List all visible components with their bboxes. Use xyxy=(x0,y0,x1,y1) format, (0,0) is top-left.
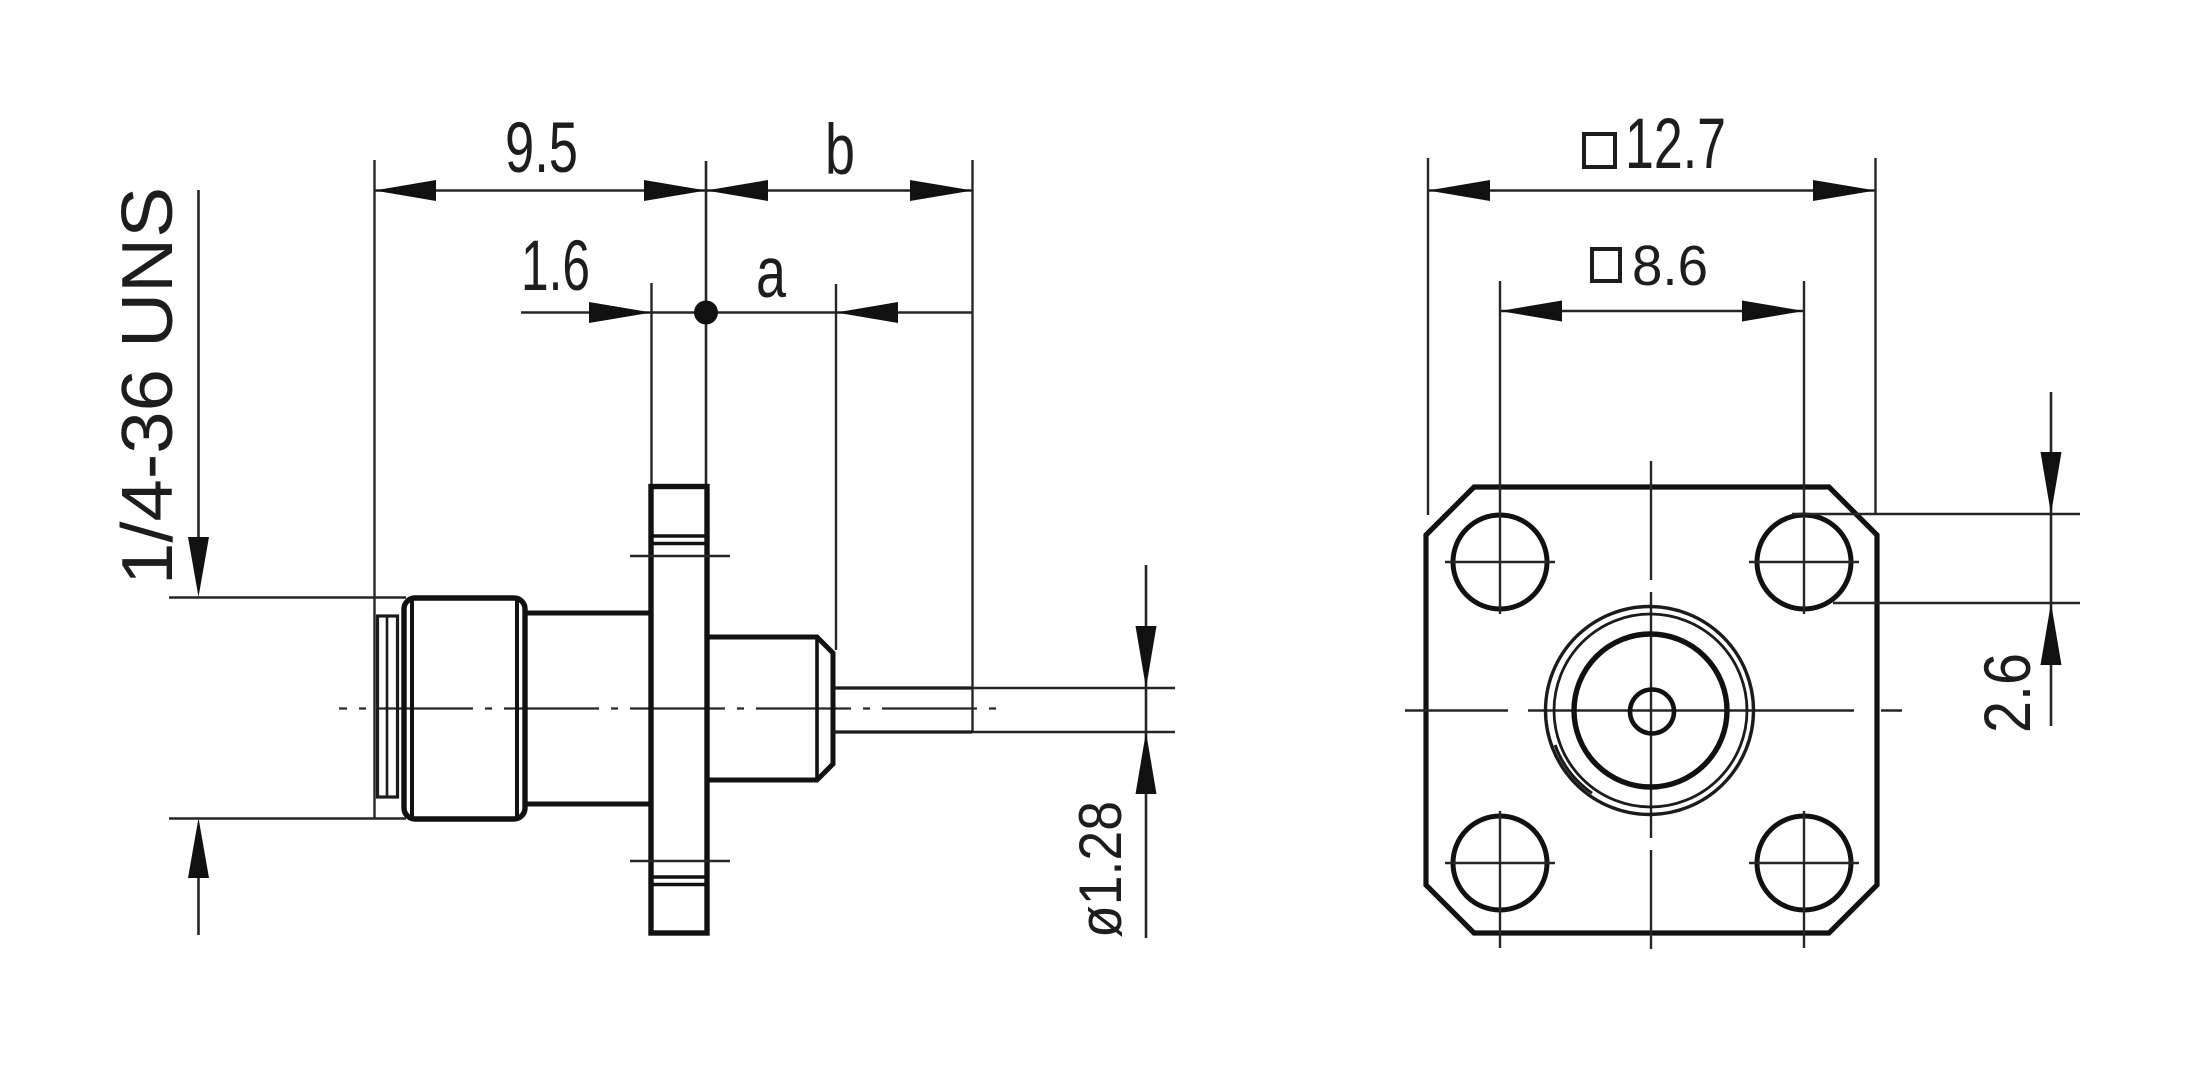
arrow b right xyxy=(910,180,973,201)
rear body outline xyxy=(707,637,833,780)
flange corner chamfer lines top xyxy=(651,534,707,538)
arrow dia1.28 top (down) xyxy=(1136,626,1157,688)
arrow dia1.28 bottom (up) xyxy=(1136,732,1157,794)
extension line 2.6 top xyxy=(1792,513,2080,515)
arrow 8.6 left xyxy=(1500,301,1562,322)
extension line left (front face) xyxy=(373,160,375,818)
dimension line 12.7 xyxy=(1428,189,1876,192)
arrow 12.7 left xyxy=(1428,180,1490,201)
rear body chamfer line xyxy=(815,637,819,780)
arrow 2.6 top (down) xyxy=(2041,452,2062,514)
center vertical centerline xyxy=(1650,461,1652,580)
dimension line 9.5 xyxy=(375,189,707,192)
thread leader line bottom xyxy=(197,845,200,935)
flange plate octagon outline xyxy=(1426,487,1877,933)
thread outline arc fragment xyxy=(1555,745,1592,793)
connector body circle xyxy=(1574,634,1727,787)
svg-text:ø1.28: ø1.28 xyxy=(1067,801,1134,938)
label square 12.7 xyxy=(1584,134,1615,167)
thread extension line bottom xyxy=(169,817,406,820)
arrow b left xyxy=(706,180,768,201)
coupling-nut / thread body outline xyxy=(404,598,525,819)
arrow a (points left at body rear) xyxy=(836,302,898,323)
svg-text:8.6: 8.6 xyxy=(1632,234,1708,298)
arrow 1.6 (points right at flange front) xyxy=(589,302,652,323)
svg-text:a: a xyxy=(756,234,786,313)
thread body chamfer line left xyxy=(410,599,414,818)
arrow 2.6 bottom (up) xyxy=(2041,603,2062,665)
axis centerline xyxy=(339,707,1000,709)
flange (side view) outline xyxy=(651,487,707,934)
contact pin top edge xyxy=(833,686,972,689)
extension line mounting plane (center reference) xyxy=(705,161,708,487)
extension line flange front face xyxy=(650,283,652,487)
extension line 12.7 right xyxy=(1874,158,1876,515)
pin diameter extension line bottom xyxy=(972,731,1175,733)
dimension line 2.6 xyxy=(2050,392,2053,726)
contact pin bottom edge xyxy=(833,730,972,733)
svg-text:1/4-36 UNS: 1/4-36 UNS xyxy=(108,187,188,585)
svg-text:2.6: 2.6 xyxy=(1970,653,2044,733)
extension line 8.6 + hole centerline left xyxy=(1499,281,1501,614)
mounting hole top-left xyxy=(1453,515,1547,609)
thread body chamfer line right xyxy=(515,599,519,818)
arrow 12.7 right xyxy=(1813,180,1876,201)
dimension line b xyxy=(706,189,973,192)
pin diameter extension line top xyxy=(972,687,1175,689)
extension line 8.6 + hole centerline right xyxy=(1803,281,1805,614)
dimension line dia 1.28 xyxy=(1145,565,1148,938)
front rim outline xyxy=(378,616,398,797)
thread outline inner circle xyxy=(1554,614,1747,807)
svg-text:1.6: 1.6 xyxy=(521,227,590,306)
center horizontal centerline xyxy=(1405,709,1508,711)
mounting hole centerline bottom (side view) xyxy=(630,860,730,862)
flange corner chamfer lines bottom xyxy=(651,875,707,879)
svg-text:9.5: 9.5 xyxy=(505,109,578,188)
thread leader arrow top (down) xyxy=(188,537,209,597)
mounting hole bottom-left xyxy=(1453,816,1547,910)
thread leader arrow bottom (up) xyxy=(188,818,209,878)
dimension line 8.6 xyxy=(1500,310,1804,313)
thread outline outer circle xyxy=(1546,607,1754,815)
extension line 2.6 bottom xyxy=(1833,602,2080,604)
svg-text:12.7: 12.7 xyxy=(1625,105,1726,184)
mounting hole top-right xyxy=(1757,515,1851,609)
dot terminator at mounting plane xyxy=(694,301,718,325)
svg-text:b: b xyxy=(825,111,855,190)
thread leader line top xyxy=(197,190,200,570)
shoulder top edge xyxy=(524,611,652,616)
center socket circle xyxy=(1630,690,1674,734)
arrow 9.5 left xyxy=(375,180,437,201)
arrow 8.6 right xyxy=(1742,301,1804,322)
thread extension line top xyxy=(169,596,406,599)
front rim chamfer line xyxy=(386,616,389,797)
extension line pin end xyxy=(971,160,973,732)
dimension line 1.6 / a xyxy=(521,311,973,314)
arrow 9.5 right xyxy=(644,180,706,201)
label square 8.6 xyxy=(1592,249,1620,281)
shoulder bottom edge xyxy=(524,802,652,807)
extension line 12.7 left xyxy=(1427,158,1429,515)
mounting hole centerline top (side view) xyxy=(630,555,730,557)
extension line body rear face xyxy=(835,284,837,650)
mounting hole bottom-right xyxy=(1757,816,1851,910)
